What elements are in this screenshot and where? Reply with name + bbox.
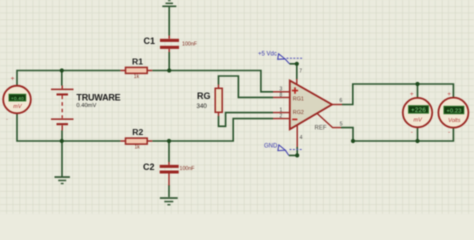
node REF rail corner [351, 139, 355, 143]
svg-text:1k: 1k [135, 145, 141, 151]
capacitor C1 [160, 36, 179, 53]
node C1 / R1 top rail junction [167, 68, 171, 72]
wire REF pin 5 to bottom right rail feeding meters [341, 127, 453, 141]
svg-text:+0.40: +0.40 [11, 96, 24, 102]
node +5V supply corner at pin 7 [295, 62, 299, 66]
svg-text:7: 7 [299, 69, 302, 75]
svg-text:RG1: RG1 [293, 96, 304, 102]
power flag GND [264, 144, 303, 156]
svg-text:0.40mV: 0.40mV [76, 103, 96, 109]
svg-text:+0.23: +0.23 [446, 108, 461, 114]
svg-text:100nF: 100nF [182, 42, 198, 48]
capacitor C2 [160, 162, 179, 186]
resistor R2 [120, 138, 152, 144]
svg-text:2: 2 [280, 113, 283, 119]
wire op-amp output pin 6 to top right rail feeding meters [342, 84, 453, 105]
ground above C1 [162, 0, 176, 7]
svg-text:5: 5 [340, 121, 343, 127]
svg-text:+: + [447, 91, 451, 98]
voltmeter M2 (output Volts meter) [438, 91, 468, 136]
svg-text:R2: R2 [132, 127, 143, 137]
battery B1 TRUWARE 0.40mV [51, 86, 74, 131]
svg-text:RG2: RG2 [293, 110, 304, 116]
svg-text:C1: C1 [144, 36, 156, 46]
ground below C2 [160, 197, 178, 205]
svg-text:6: 6 [340, 98, 343, 104]
wire meter1 top branch [417, 84, 419, 98]
voltmeter M1 (output mV meter) [403, 91, 432, 136]
svg-text:-: - [411, 129, 413, 136]
svg-text:1k: 1k [134, 74, 140, 80]
wire GND flag to op-amp pin 4 [289, 147, 297, 155]
resistor R1 [120, 67, 152, 73]
op-amp U1 instrumentation amplifier [273, 79, 342, 147]
wire battery top branch [61, 71, 63, 86]
node C2 / R2 bottom rail junction [167, 139, 171, 143]
wire C1 branch to top rail and to top ground [168, 6, 170, 71]
svg-text:+: + [410, 91, 414, 98]
wire battery bottom to ground [61, 130, 63, 176]
svg-text:mV: mV [13, 104, 23, 110]
svg-text:TRUWARE: TRUWARE [76, 92, 120, 102]
svg-text:R1: R1 [132, 57, 143, 67]
svg-text:C2: C2 [143, 162, 155, 172]
svg-text:-: - [448, 129, 450, 136]
svg-text:Volts: Volts [448, 118, 460, 124]
svg-text:-: - [6, 116, 8, 123]
node battery top / top rail junction [60, 68, 64, 72]
resistor RG (gain resistor) [215, 85, 222, 117]
svg-text:RG: RG [197, 91, 211, 101]
node meter1 bottom tap on REF rail [415, 139, 419, 143]
svg-text:340: 340 [197, 103, 208, 110]
wire RG top to op-amp pin 8 (RG1) [219, 76, 274, 97]
svg-text:+: + [11, 76, 15, 83]
svg-text:REF: REF [315, 125, 327, 131]
svg-text:mV: mV [414, 118, 424, 124]
wire RG bottom to op-amp pin 1 (RG2) [219, 113, 274, 127]
wire voltmeter top to top rail, left segment of top rail to R1 [17, 71, 120, 86]
svg-text:+226: +226 [411, 107, 426, 114]
svg-text:8: 8 [280, 92, 283, 98]
wire C2 branch [168, 141, 170, 197]
voltmeter PR1 (input mV probe) [3, 76, 31, 124]
ground below battery [55, 176, 70, 184]
node meter1 top tap on output rail [415, 82, 419, 86]
wire voltmeter bottom to bottom rail, left segment to R2 [17, 114, 120, 142]
inverting - mark inside op-amp [292, 118, 297, 120]
non-inverting + mark inside op-amp [292, 87, 298, 93]
svg-text:4: 4 [300, 135, 303, 141]
node battery ground leg / bottom rail junction [60, 139, 64, 143]
svg-text:100nF: 100nF [180, 166, 196, 172]
wire meter1 bottom branch [417, 127, 419, 141]
svg-text:+5 Vdc: +5 Vdc [258, 52, 277, 58]
svg-text:GND: GND [264, 144, 278, 150]
wire top rail from R1 to corner down to op-amp pin 3 [152, 71, 273, 92]
wire bottom rail from R2 to corner up to op-amp pin 2 [152, 119, 273, 141]
node GND corner at pin 4 [295, 153, 299, 157]
power flag +5 Vdc [258, 52, 303, 64]
wire +5V power flag to op-amp pin 7 [290, 64, 297, 79]
